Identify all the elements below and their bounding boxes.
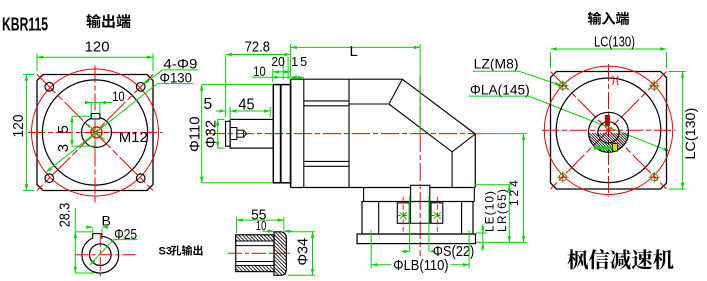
input flange tapped hole LZ 1 (green)	[557, 80, 568, 91]
ring gear seam bottom	[304, 161, 349, 166]
input flange centerline horizontal (red)	[542, 129, 676, 131]
input bolt mark right (green)	[434, 212, 441, 219]
dim 120 (top)	[37, 39, 153, 72]
svg-text:L: L	[350, 43, 358, 60]
dim phiLB(110)	[371, 230, 469, 274]
output flange bolt hole 2	[136, 83, 145, 92]
input flange tapped hole LZ 4 (green)	[649, 172, 660, 183]
svg-text:120: 120	[10, 115, 27, 138]
svg-text:5: 5	[204, 96, 213, 113]
dim 45	[230, 97, 270, 118]
input flange diagonal centerline 2 (red)	[551, 72, 667, 190]
input hub clamp hatch	[588, 133, 629, 153]
leader phi25	[90, 227, 138, 265]
red centerline tick below flange	[94, 196, 96, 203]
output flange centerline horizontal (red)	[28, 132, 163, 134]
svg-text:45: 45	[238, 97, 254, 114]
input bore relief marks (red)	[613, 76, 619, 86]
dim LC(130) top	[551, 35, 667, 69]
output flange plate inner line	[280, 85, 282, 183]
dim phi110	[187, 85, 272, 183]
svg-text:KBR115: KBR115	[2, 15, 48, 35]
svg-text:72.8: 72.8	[245, 38, 270, 55]
brand text Fengxin reducer (Chinese)	[567, 249, 673, 269]
output flange diagonal centerline 1 (red)	[37, 75, 153, 191]
output bore thread circle (red)	[91, 127, 102, 138]
svg-text:15: 15	[291, 55, 307, 69]
ring gear seam top	[304, 101, 349, 106]
input hub inner circle	[598, 122, 619, 143]
input flange block	[362, 202, 473, 235]
bushing tube hatch top	[236, 235, 273, 240]
input bolt box left	[397, 203, 409, 224]
shaft section inner circle	[90, 244, 112, 266]
output flange square	[37, 75, 153, 191]
leader 4-phi9	[144, 57, 198, 85]
output bore center mark (green)	[88, 125, 105, 141]
svg-text:10: 10	[256, 219, 267, 233]
dim phi34	[288, 232, 315, 275]
dim 124	[475, 134, 527, 243]
bevel corner chamfer left edge	[389, 79, 402, 104]
bevel corner outer chamfer	[402, 79, 475, 134]
svg-text:10: 10	[112, 89, 125, 104]
svg-text:S3: S3	[159, 246, 172, 258]
svg-text:4-Φ9: 4-Φ9	[163, 57, 197, 72]
output flange main circle	[42, 80, 147, 185]
input shaft stub	[411, 185, 430, 201]
bevel corner inner chamfer	[389, 104, 452, 152]
svg-text:LC(130): LC(130)	[682, 108, 698, 160]
dim 35 (vertical)	[55, 116, 95, 152]
output flange bolt hole 3	[45, 174, 54, 183]
input mounting lip	[357, 234, 476, 244]
bushing collar	[274, 232, 286, 275]
dim phi32	[203, 119, 224, 148]
svg-text:Φ130: Φ130	[160, 70, 193, 85]
shaft section centerline vertical (red)	[99, 233, 101, 277]
gearbox body top edge	[291, 78, 403, 80]
input bolt centerline right (red)	[436, 197, 438, 232]
svg-text:120: 120	[85, 39, 110, 56]
output flange diagonal centerline 2 (red)	[37, 75, 153, 191]
input bolt red dash left	[397, 215, 411, 217]
input flange centerline vertical (red)	[608, 64, 610, 197]
svg-text:M12: M12	[119, 129, 148, 146]
inner bore line to bevel	[349, 103, 389, 105]
shaft section keyway	[93, 234, 102, 239]
bevel corner chamfer right edge	[452, 134, 475, 152]
main centerline horizontal (red)	[207, 133, 481, 135]
dim 10 (keyway offset)	[85, 89, 125, 113]
svg-text:B: B	[102, 212, 111, 228]
label S3-hole-output	[159, 245, 203, 257]
shaft end tapped hole M12	[230, 128, 247, 140]
dim 10 (collar)	[256, 219, 292, 233]
label output-end (Chinese)	[86, 14, 130, 28]
dim 20	[271, 55, 290, 82]
leader LZ(M8)	[473, 57, 561, 86]
input bolt centerline left (red)	[402, 197, 404, 232]
dim LE(10)	[476, 191, 497, 251]
input hub outer circle	[589, 112, 629, 152]
shaft section outer circle	[82, 236, 119, 273]
svg-text:Φ25: Φ25	[114, 227, 137, 243]
svg-text:LE(10): LE(10)	[482, 191, 496, 232]
label input-end (Chinese)	[588, 12, 629, 25]
input flange square	[551, 72, 667, 190]
main centerline vertical input axis (red)	[419, 76, 421, 256]
input flange tapped hole LZ 2 (green)	[649, 80, 660, 91]
output flange centerline vertical (red)	[94, 66, 96, 202]
input flange block inner line right	[461, 202, 463, 235]
output bore center mark lines (green)	[76, 113, 117, 151]
output flange bolt circle (red)	[32, 69, 159, 196]
bushing tube outline	[236, 235, 274, 272]
input bore sides	[409, 202, 431, 224]
body section line 2	[348, 79, 350, 187]
input hub keyway bar (red)	[605, 115, 610, 126]
leader phi130	[46, 70, 194, 172]
input bolt mark left (green)	[400, 212, 407, 219]
dim 15	[288, 55, 307, 80]
output flange bolt hole 1	[45, 83, 54, 92]
svg-text:Φ32: Φ32	[203, 120, 219, 148]
input bolt red dash right	[431, 215, 445, 217]
input flange tapped hole LZ 3 (green)	[557, 172, 568, 183]
gearbox body bottom edge	[291, 187, 475, 189]
body right edge	[474, 134, 476, 188]
svg-text:LZ(M8): LZ(M8)	[474, 57, 519, 72]
svg-text:28.3: 28.3	[57, 203, 74, 228]
svg-text:LC(130): LC(130)	[594, 35, 635, 51]
output flange plate	[273, 85, 290, 183]
leader phiLA(145)	[469, 81, 670, 151]
bevel housing vertical	[451, 152, 453, 188]
dim 28.3	[57, 203, 95, 273]
svg-text:10: 10	[253, 64, 266, 79]
svg-text:124: 124	[507, 180, 521, 206]
output bore keyway	[91, 114, 100, 119]
input hub clamp bar (green)	[594, 146, 616, 149]
svg-text:Φ110: Φ110	[187, 116, 203, 152]
output shaft bore circle	[82, 117, 112, 147]
dim 72.8	[226, 38, 291, 117]
dim L	[291, 43, 421, 134]
bushing centerline (red)	[228, 252, 291, 254]
dim 55	[237, 207, 284, 233]
dim 10 (plate)	[252, 64, 297, 79]
input hub yellow key block	[612, 144, 617, 152]
input flange diagonal centerline 1 (red)	[551, 72, 667, 190]
dim 5	[204, 96, 231, 121]
output shaft tip section	[226, 121, 231, 146]
output flange bolt hole 4	[136, 174, 145, 183]
input adapter plate	[362, 188, 474, 202]
svg-text:ΦLA(145): ΦLA(145)	[470, 81, 530, 97]
dim LC(130) right	[669, 72, 698, 190]
svg-text:ΦLB(110): ΦLB(110)	[393, 257, 448, 274]
input flange main circle	[556, 78, 661, 183]
dim B	[86, 212, 111, 233]
output shaft main section	[230, 119, 273, 148]
bushing collar hatch	[274, 232, 285, 274]
svg-text:Φ34: Φ34	[296, 238, 312, 266]
gearbox body front face	[290, 79, 292, 187]
dim 120 (left)	[10, 75, 34, 191]
dim LR(65)	[474, 185, 512, 243]
input flange bolt circle (red)	[544, 66, 672, 194]
input flange block inner line left	[378, 202, 380, 235]
shaft section centerline horizontal (red)	[74, 254, 135, 256]
body section line 1	[303, 79, 305, 187]
bushing tube hatch bottom	[236, 266, 273, 271]
dim phiS(22)	[402, 196, 475, 260]
input bolt box right	[431, 203, 443, 224]
svg-text:20: 20	[271, 55, 285, 69]
